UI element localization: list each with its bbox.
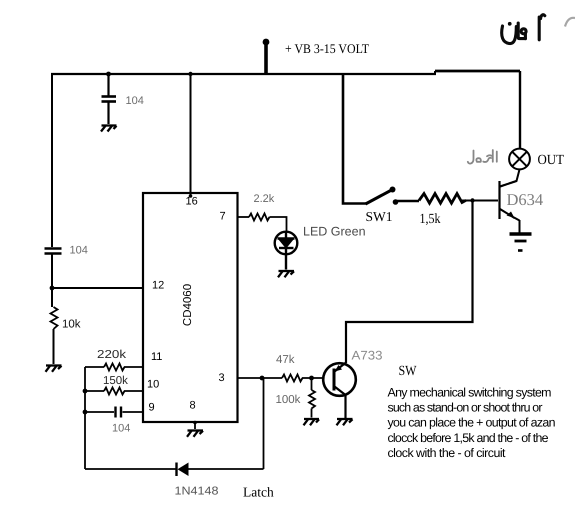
svg-text:12: 12 xyxy=(152,280,164,292)
note paragraph xyxy=(388,385,556,460)
svg-text:150k: 150k xyxy=(103,375,128,387)
svg-text:Latch: Latch xyxy=(243,485,274,500)
wire top rail left segment xyxy=(51,73,436,75)
svg-text:10k: 10k xyxy=(62,319,81,331)
wire pin 7 xyxy=(238,216,250,218)
junction dot pin16 rail xyxy=(188,72,192,76)
wire bottom latch right xyxy=(188,468,264,470)
resistor 47k xyxy=(282,375,303,382)
wire latch riser xyxy=(263,378,265,469)
wire bottom latch left xyxy=(85,468,176,470)
resistor 2.2k xyxy=(249,214,270,221)
wire Q1 collector to ground xyxy=(344,394,346,418)
svg-text:220k: 220k xyxy=(97,349,126,361)
junction dot Q2 base xyxy=(470,198,474,202)
resistor 150k xyxy=(85,388,143,395)
ground below 10k xyxy=(46,366,62,372)
svg-text:104: 104 xyxy=(126,95,144,107)
IC U1 CD4060 xyxy=(143,193,238,422)
junction dot 100k xyxy=(309,376,314,381)
resistor 100k xyxy=(309,378,315,418)
svg-text:47k: 47k xyxy=(276,354,295,366)
diode D2 1N4148 xyxy=(177,463,189,477)
wire SW1 to R 1,5k xyxy=(396,200,420,203)
svg-text:8: 8 xyxy=(190,400,196,412)
ground below pin 8 xyxy=(187,431,203,437)
capacitor C3 104 xyxy=(85,407,143,418)
svg-text:9: 9 xyxy=(149,402,155,414)
wire SW1 feed xyxy=(343,74,366,204)
svg-text:OUT: OUT xyxy=(538,153,565,168)
svg-text:you can place the + output of: you can place the + output of azan xyxy=(388,416,556,430)
ground below LED xyxy=(278,271,294,277)
ground below Q1 xyxy=(337,419,353,425)
wire pin 12 xyxy=(52,287,143,289)
svg-text:11: 11 xyxy=(151,351,162,363)
svg-text:clock with the - of circuit: clock with the - of circuit xyxy=(388,446,507,460)
svg-text:SW1: SW1 xyxy=(366,209,393,224)
svg-text:D634: D634 xyxy=(507,190,544,209)
junction dot at bypass cap xyxy=(106,72,111,77)
stray gray mark top right xyxy=(565,18,575,27)
capacitor C2 104 xyxy=(45,249,62,254)
svg-text:such as stand-on or shoot thru: such as stand-on or shoot thru or xyxy=(388,401,543,415)
transistor Q2 D634 xyxy=(500,181,520,221)
wire Q1 emitter riser xyxy=(346,201,473,363)
svg-text:16: 16 xyxy=(186,196,198,208)
label al-himl Arabic xyxy=(468,150,497,164)
svg-text:7: 7 xyxy=(220,211,226,223)
wire pin 8 stub xyxy=(194,422,196,429)
svg-text:1,5k: 1,5k xyxy=(420,212,441,227)
LED D1 xyxy=(275,232,298,255)
wire lamp to Q2 collector xyxy=(500,170,520,187)
wire left rail below C2 xyxy=(51,255,53,308)
svg-text:SW: SW xyxy=(399,364,418,379)
wire to 47k xyxy=(262,377,282,379)
wire 47k to Q1 base xyxy=(302,377,324,379)
wire pin 16 feed xyxy=(190,74,192,196)
power terminal VB xyxy=(263,39,270,74)
lamp load OUT xyxy=(509,149,530,170)
ground bars below Q2 xyxy=(510,234,532,251)
transistor Q1 A733 xyxy=(323,363,356,396)
wire lamp drop xyxy=(519,71,521,149)
capacitor C1 104 xyxy=(102,97,117,102)
resistor 1,5k xyxy=(419,194,466,204)
svg-text:1N4148: 1N4148 xyxy=(175,486,219,498)
ground below C1 xyxy=(101,126,117,132)
wire top rail jog xyxy=(434,71,436,74)
ground below 100k xyxy=(304,419,320,425)
wire LED to ground xyxy=(285,248,287,270)
wire bypass cap stub xyxy=(107,74,109,96)
svg-text:104: 104 xyxy=(112,423,130,435)
wire Q2 emitter down xyxy=(519,220,521,233)
junction dot pin3 xyxy=(260,376,265,381)
junction node pin12 xyxy=(50,286,55,291)
wire mini rail left of RC xyxy=(84,367,86,469)
wire R to Q2 base xyxy=(462,200,498,202)
junction dot cap104 xyxy=(83,410,88,415)
svg-text:LED Green: LED Green xyxy=(303,225,366,239)
resistor 10k xyxy=(51,307,58,329)
wire 10k to ground xyxy=(53,329,55,364)
wire top rail right segment xyxy=(435,70,520,73)
svg-text:104: 104 xyxy=(70,245,88,257)
junction dot 150k xyxy=(83,389,88,394)
svg-text:100k: 100k xyxy=(276,394,301,406)
svg-text:Any mechanical switching syste: Any mechanical switching system xyxy=(388,385,552,399)
resistor 220k xyxy=(85,364,143,371)
wire pin 3 xyxy=(238,377,263,379)
svg-text:CD4060: CD4060 xyxy=(182,284,194,326)
svg-text:A733: A733 xyxy=(352,349,383,363)
wire below C1 xyxy=(107,103,109,125)
wire 2.2k to LED xyxy=(270,217,287,232)
switch SW1 xyxy=(366,187,399,205)
svg-text:clocck before 1,5k and the - o: clocck before 1,5k and the - of the xyxy=(388,431,549,445)
svg-text:2.2k: 2.2k xyxy=(254,193,275,205)
svg-text:10: 10 xyxy=(147,379,159,391)
svg-text:+ VB 3-15 VOLT: + VB 3-15 VOLT xyxy=(285,41,369,56)
wire left rail upper xyxy=(51,73,53,247)
title Arabic aman xyxy=(502,15,545,44)
svg-text:3: 3 xyxy=(219,372,225,384)
